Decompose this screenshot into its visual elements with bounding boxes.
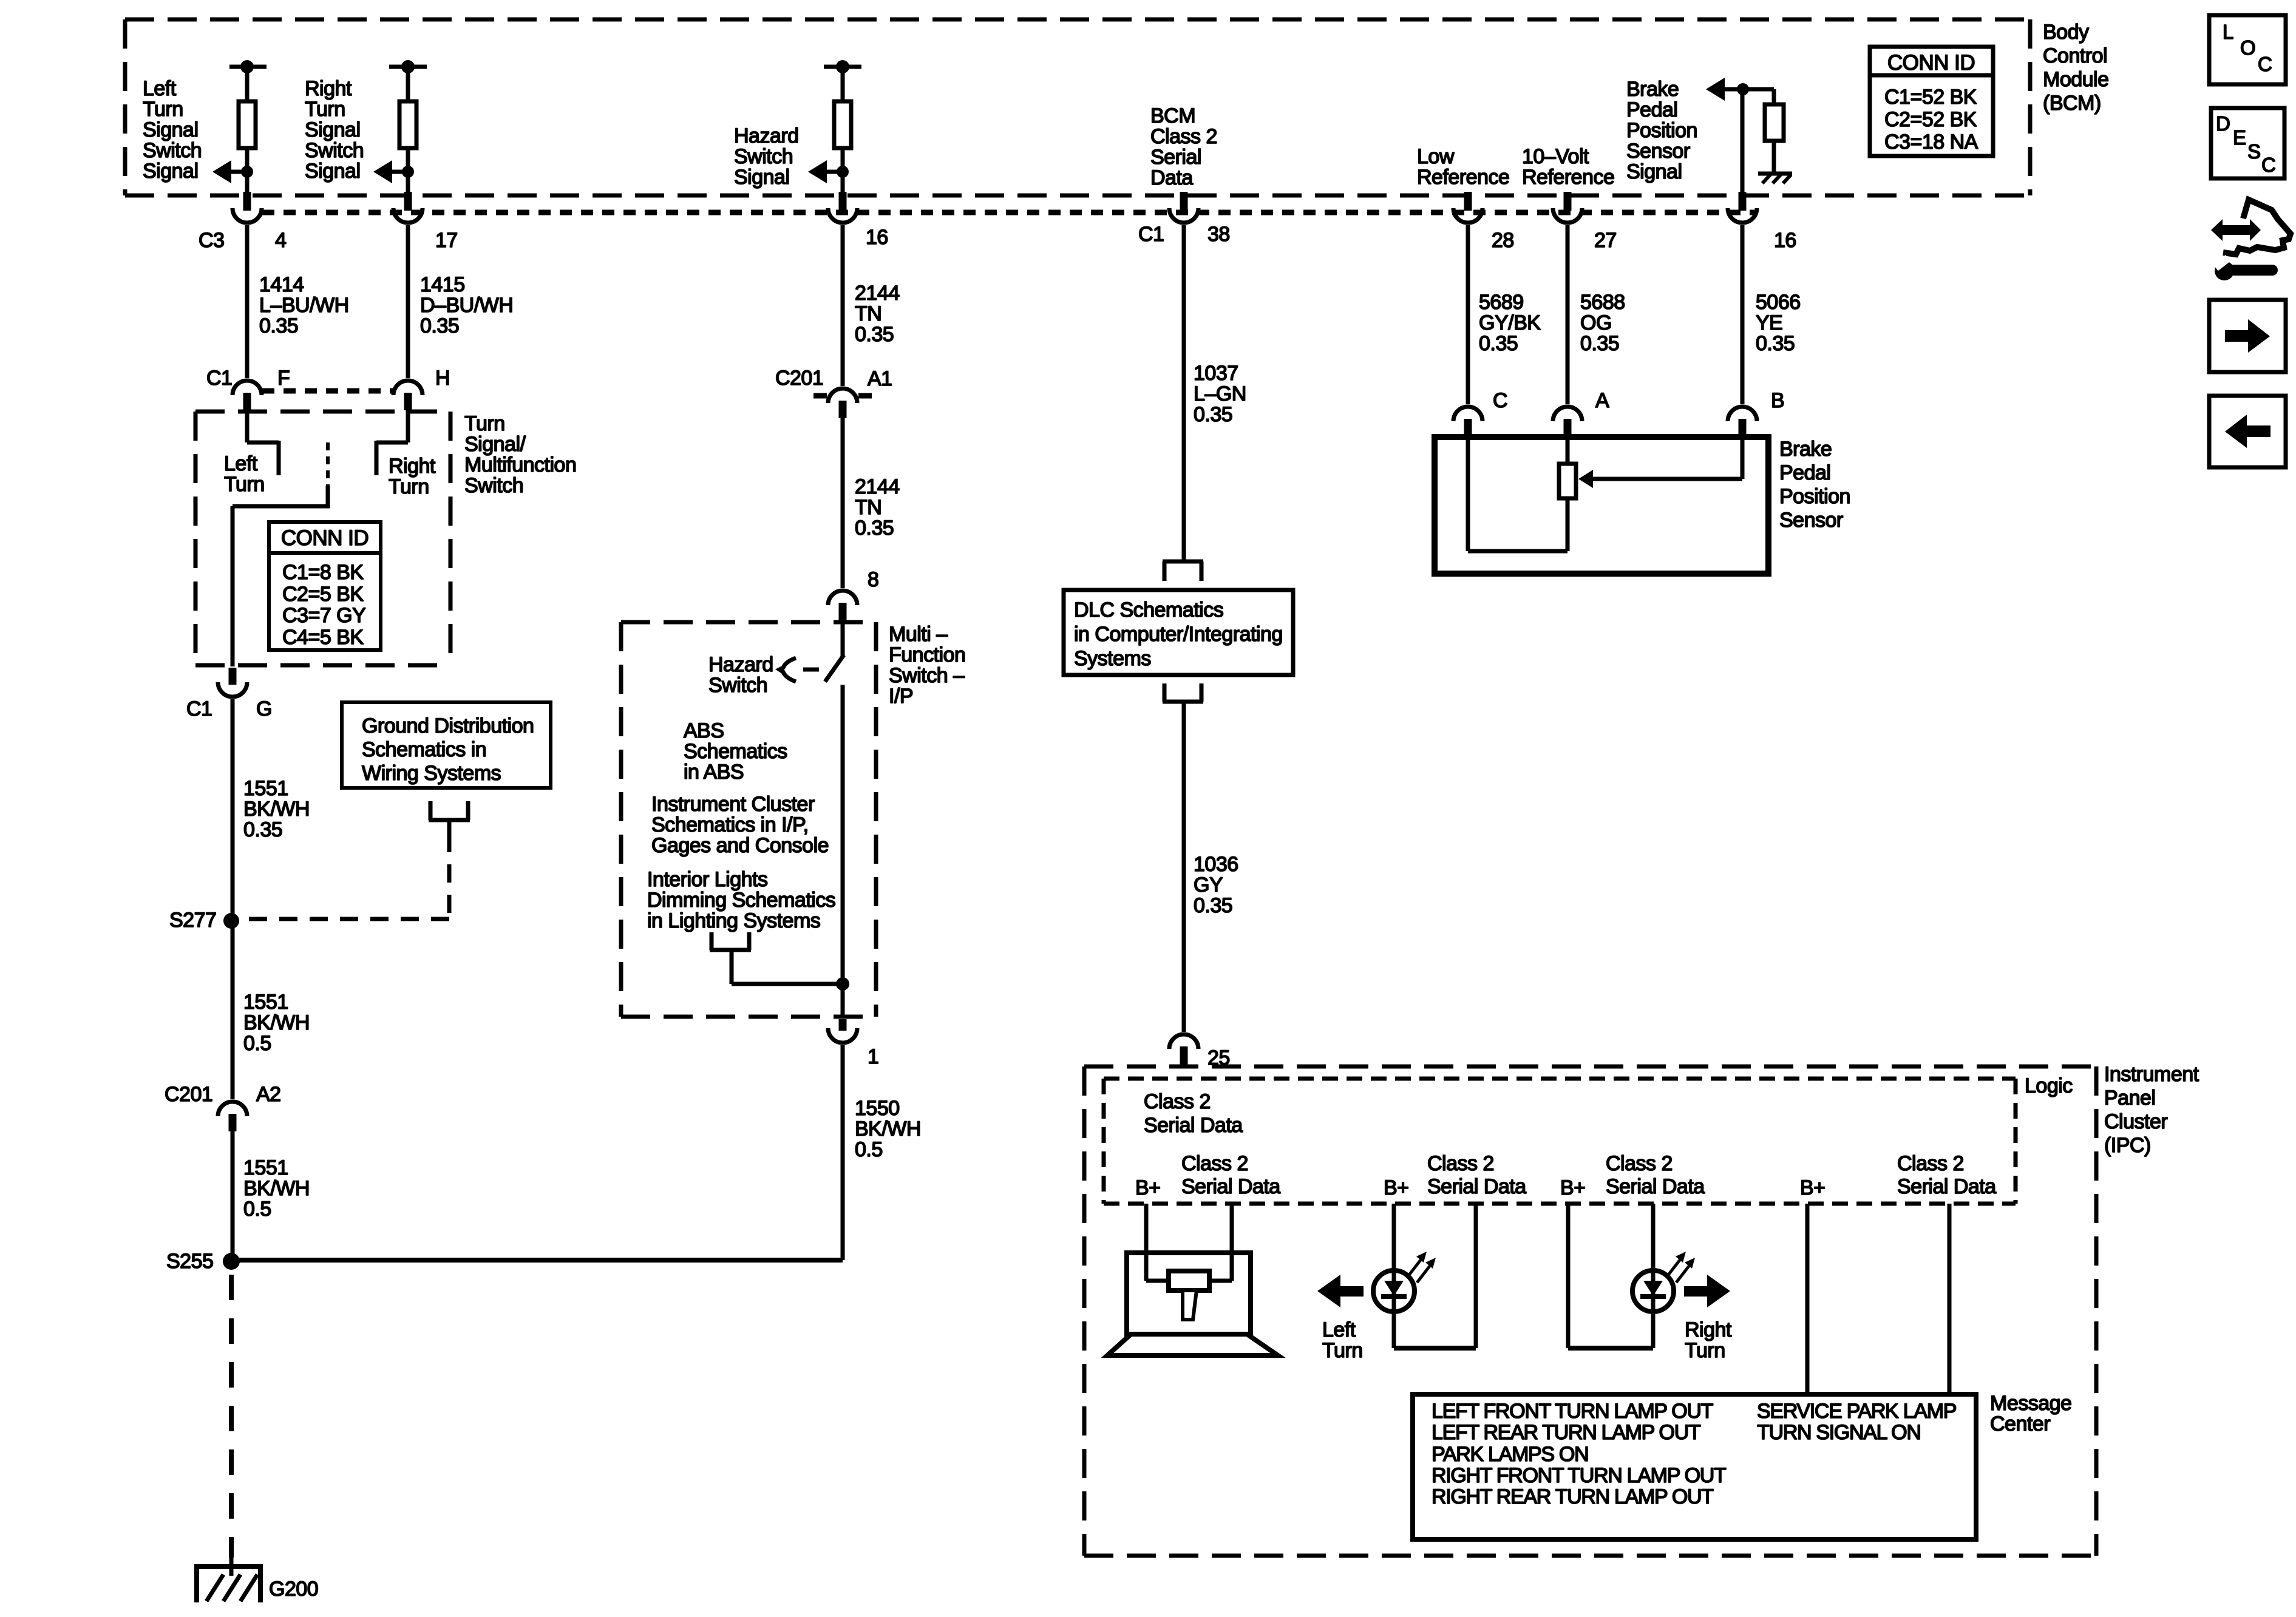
svg-text:S: S <box>2247 140 2261 163</box>
svg-text:in ABS: in ABS <box>684 761 744 784</box>
svg-text:1: 1 <box>868 1045 878 1068</box>
svg-text:Class 2: Class 2 <box>1181 1152 1248 1175</box>
svg-text:C2=5 BK: C2=5 BK <box>282 583 364 606</box>
connector: pin 28 (low reference) <box>1464 192 1472 211</box>
svg-text:0.35: 0.35 <box>1194 403 1232 426</box>
svg-text:B+: B+ <box>1384 1176 1409 1199</box>
svg-text:Schematics: Schematics <box>684 740 787 763</box>
svg-text:G200: G200 <box>269 1578 318 1601</box>
svg-text:Reference: Reference <box>1417 166 1509 189</box>
svg-text:C1: C1 <box>186 697 212 720</box>
svg-text:C: C <box>1493 389 1507 412</box>
node: junction on hazard return wire <box>836 977 849 991</box>
svg-text:0.35: 0.35 <box>420 314 459 337</box>
switch: hazard switch blade (open) <box>841 622 845 656</box>
svg-text:B: B <box>1771 389 1784 412</box>
wire: circuit 1551 upper <box>231 699 235 1099</box>
connector: sensor pin C <box>1453 407 1483 421</box>
node: splice S255 <box>223 1253 240 1270</box>
signal arrow + junction: Hazard Switch Signal <box>837 166 849 178</box>
svg-text:Brake: Brake <box>1779 438 1832 461</box>
svg-text:0.35: 0.35 <box>855 323 894 346</box>
logic box: IPC Logic (dashed) <box>1104 1077 2016 1081</box>
connector: multifunction switch I/P pin 1 <box>839 1019 847 1031</box>
svg-text:D–BU/WH: D–BU/WH <box>420 294 513 317</box>
module box: Body Control Module (BCM), dashed outline <box>125 18 2030 22</box>
svg-text:Center: Center <box>1990 1412 2050 1436</box>
connector line: switch connector C1 (dotted, F to H) <box>262 388 395 394</box>
svg-text:0.35: 0.35 <box>1580 332 1619 355</box>
svg-text:Class 2: Class 2 <box>1897 1152 1964 1175</box>
svg-text:LEFT REAR TURN LAMP OUT: LEFT REAR TURN LAMP OUT <box>1432 1421 1700 1444</box>
icon: vehicle with wrench (repair instructions) <box>2211 219 2261 241</box>
svg-text:Serial Data: Serial Data <box>1897 1175 1996 1198</box>
svg-text:Body: Body <box>2043 21 2089 44</box>
svg-text:(BCM): (BCM) <box>2043 92 2101 115</box>
connector: C1 pin G (switch ground output) <box>229 668 237 685</box>
svg-text:Reference: Reference <box>1522 166 1614 189</box>
svg-text:Right: Right <box>1685 1318 1732 1341</box>
switch: left turn contact <box>245 410 250 442</box>
svg-text:C1: C1 <box>1138 223 1164 246</box>
svg-text:C201: C201 <box>165 1083 212 1106</box>
arrow: right turn telltale (points right) <box>1707 1275 1730 1307</box>
svg-text:0.35: 0.35 <box>1194 894 1232 917</box>
svg-text:C1=8 BK: C1=8 BK <box>282 561 364 584</box>
svg-text:Multifunction: Multifunction <box>464 453 576 476</box>
connector: C1 pin 38 (BCM class 2 serial data) <box>1180 192 1188 211</box>
switch: right turn contact (open) <box>406 410 410 442</box>
svg-text:O: O <box>2240 36 2255 59</box>
svg-text:BK/WH: BK/WH <box>855 1117 921 1141</box>
signal arrow + junction: Right Turn Signal Switch Signal <box>402 166 414 178</box>
wire: circuit 2144 upper (hazard) <box>841 225 845 386</box>
icon: left arrow box <box>2209 396 2286 467</box>
svg-text:Multi –: Multi – <box>889 623 948 646</box>
connector: C201 pin A2 <box>218 1102 247 1116</box>
svg-text:17: 17 <box>435 229 458 252</box>
svg-text:BK/WH: BK/WH <box>243 1177 310 1200</box>
svg-text:L: L <box>2223 21 2233 43</box>
connector: sensor pin B <box>1728 407 1757 421</box>
wire: left turn LED return loop <box>1392 1312 1396 1348</box>
arrow: left turn telltale (points left) <box>1317 1275 1340 1307</box>
connector: sensor pin A <box>1553 407 1582 421</box>
svg-text:Right: Right <box>305 77 352 100</box>
svg-text:DLC Schematics: DLC Schematics <box>1074 598 1223 622</box>
svg-text:0.35: 0.35 <box>243 818 282 841</box>
svg-text:C3: C3 <box>199 229 224 252</box>
connector: C1 pin H (turn signal switch) <box>393 381 423 395</box>
reference box: Ground Distribution Schematics in Wiring Systems <box>342 702 551 788</box>
svg-text:LEFT FRONT TURN LAMP OUT: LEFT FRONT TURN LAMP OUT <box>1432 1400 1713 1423</box>
svg-text:Signal: Signal <box>143 160 199 183</box>
potentiometer: brake pedal position sensor element <box>1566 438 1570 464</box>
svg-text:BCM: BCM <box>1150 104 1195 127</box>
resistor: brake pedal signal pull-up (BCM internal) <box>1772 89 1776 104</box>
switch actuator: hazard knob symbol <box>779 658 796 682</box>
resistor: Left Turn Signal Switch pull-up (BCM internal), wire x=407 <box>229 65 267 69</box>
wire: circuit 5066 (brake pedal sensor signal) <box>1741 225 1745 404</box>
svg-text:C: C <box>2261 154 2275 176</box>
wire: brake pedal signal down to BCM pin 16 <box>1741 89 1745 193</box>
svg-text:1550: 1550 <box>855 1097 900 1120</box>
svg-text:Control: Control <box>2043 44 2107 67</box>
LED: right turn indicator <box>1632 1270 1674 1312</box>
svg-text:Pedal: Pedal <box>1626 98 1677 121</box>
svg-text:38: 38 <box>1207 223 1230 246</box>
wiper arrow: sensor signal (pin B) <box>1741 438 1745 479</box>
svg-text:0.5: 0.5 <box>243 1198 271 1221</box>
svg-text:Switch: Switch <box>708 674 767 697</box>
svg-text:Class 2: Class 2 <box>1150 125 1217 148</box>
svg-text:Switch –: Switch – <box>889 664 965 687</box>
svg-text:C1: C1 <box>206 367 232 390</box>
svg-text:Position: Position <box>1626 119 1697 142</box>
svg-text:Serial Data: Serial Data <box>1181 1175 1280 1198</box>
svg-text:Turn: Turn <box>389 475 429 498</box>
svg-text:C201: C201 <box>775 367 823 390</box>
svg-text:Position: Position <box>1779 485 1850 508</box>
svg-text:Dimming Schematics: Dimming Schematics <box>647 889 835 912</box>
svg-text:Schematics in: Schematics in <box>362 738 486 761</box>
svg-text:A1: A1 <box>868 367 892 390</box>
signal arrow + junction: Left Turn Signal Switch Signal <box>241 166 253 178</box>
svg-text:GY/BK: GY/BK <box>1479 311 1541 334</box>
svg-text:Right: Right <box>389 455 436 478</box>
svg-text:Interior Lights: Interior Lights <box>647 868 768 891</box>
display box: Message Center texts <box>1413 1394 1976 1539</box>
svg-text:Low: Low <box>1417 145 1455 168</box>
wire: circuit 1036 <box>1182 707 1186 1032</box>
connector line: BCM harness connectors (dotted) <box>262 210 1754 215</box>
svg-text:0.35: 0.35 <box>1756 332 1795 355</box>
svg-text:Module: Module <box>2043 68 2109 91</box>
svg-text:Left: Left <box>1322 1318 1356 1341</box>
wire: message center feed 1 <box>1805 1204 1810 1395</box>
svg-text:Instrument Cluster: Instrument Cluster <box>651 793 815 816</box>
svg-text:16: 16 <box>866 226 888 249</box>
svg-text:TN: TN <box>855 302 881 325</box>
table: BCM CONN ID (C1=52 BK, C2=52 BK, C3=18 NA) <box>1870 47 1993 156</box>
node: splice S277 <box>223 913 239 929</box>
svg-text:Serial: Serial <box>1150 146 1201 169</box>
svg-text:Serial Data: Serial Data <box>1144 1114 1243 1137</box>
wire: message center feed 2 <box>1948 1204 1952 1395</box>
svg-text:1551: 1551 <box>243 1156 288 1179</box>
connector: C3 pin 4 (left turn signal wire) <box>243 192 251 211</box>
svg-text:Brake: Brake <box>1626 78 1679 101</box>
svg-text:Schematics in I/P,: Schematics in I/P, <box>651 813 809 836</box>
wire: right turn LED left leg <box>1566 1204 1571 1348</box>
ground: BCM internal ground (chassis) <box>1758 172 1792 176</box>
svg-text:H: H <box>435 367 450 390</box>
component box: Multi-Function Switch - I/P (dashed) <box>621 620 876 625</box>
svg-text:ABS: ABS <box>684 719 724 742</box>
svg-text:S255: S255 <box>166 1250 213 1273</box>
svg-text:YE: YE <box>1756 311 1782 334</box>
svg-text:OG: OG <box>1580 311 1612 334</box>
svg-text:1036: 1036 <box>1194 853 1238 876</box>
svg-text:0.35: 0.35 <box>1479 332 1518 355</box>
svg-text:1037: 1037 <box>1194 362 1238 385</box>
lamp: message center telltale display icon <box>1146 1279 1232 1283</box>
wire: right turn LED return loop <box>1568 1346 1653 1351</box>
svg-text:Pedal: Pedal <box>1779 461 1830 484</box>
svg-text:10–Volt: 10–Volt <box>1522 145 1589 168</box>
svg-text:Serial Data: Serial Data <box>1427 1175 1526 1198</box>
svg-text:Cluster: Cluster <box>2104 1110 2167 1133</box>
svg-text:Turn: Turn <box>143 98 183 121</box>
wire: reference drop joining hazard return <box>730 965 734 984</box>
ground: G200 <box>229 1558 234 1576</box>
svg-text:Turn: Turn <box>1685 1339 1725 1362</box>
svg-text:4: 4 <box>275 229 286 252</box>
icon: right arrow box <box>2209 300 2286 372</box>
svg-text:1414: 1414 <box>259 273 304 296</box>
svg-text:C4=5 BK: C4=5 BK <box>282 626 364 649</box>
svg-text:C: C <box>2258 53 2272 75</box>
connector: C201 pin A1 <box>828 388 857 403</box>
svg-text:Signal: Signal <box>1626 160 1682 183</box>
svg-text:Turn: Turn <box>305 98 345 121</box>
connector line: C201 A1 (dotted stubs) <box>813 393 827 399</box>
svg-text:L–GN: L–GN <box>1194 382 1246 405</box>
svg-text:Serial Data: Serial Data <box>1606 1175 1705 1198</box>
svg-text:BK/WH: BK/WH <box>243 1011 310 1034</box>
svg-text:Switch: Switch <box>464 474 523 497</box>
svg-text:GY: GY <box>1194 873 1223 897</box>
svg-text:RIGHT FRONT TURN LAMP OUT: RIGHT FRONT TURN LAMP OUT <box>1432 1464 1726 1487</box>
connector: multifunction switch I/P pin 8 <box>828 591 857 605</box>
svg-text:B+: B+ <box>1560 1176 1586 1199</box>
svg-text:Wiring Systems: Wiring Systems <box>362 762 501 785</box>
svg-text:(IPC): (IPC) <box>2104 1134 2151 1157</box>
table: switch CONN ID (C1=8 BK, C2=5 BK, C3=7 GY, C4=5 BK) <box>269 522 381 650</box>
svg-text:in Computer/Integrating: in Computer/Integrating <box>1074 623 1283 646</box>
wire: telltale lamp feed (left leg) <box>1144 1204 1149 1281</box>
svg-text:B+: B+ <box>1800 1176 1826 1199</box>
svg-text:Signal: Signal <box>734 166 790 189</box>
svg-text:Hazard: Hazard <box>708 653 773 676</box>
svg-text:G: G <box>256 697 272 720</box>
svg-text:1551: 1551 <box>243 777 288 800</box>
svg-text:A: A <box>1595 389 1609 412</box>
svg-text:0.5: 0.5 <box>855 1138 883 1161</box>
svg-text:C3=7 GY: C3=7 GY <box>282 604 365 627</box>
wire: circuit 1551 lower <box>231 1131 235 1260</box>
module box: Instrument Panel Cluster (IPC), dashed outline <box>1084 1065 2096 1069</box>
wire: dashed drop from S255 to ground G200 <box>229 1275 234 1558</box>
svg-text:CONN ID: CONN ID <box>1887 51 1975 75</box>
connector: IPC pin 25 <box>1169 1034 1198 1049</box>
wire: circuit 5689 (low reference) <box>1466 225 1470 404</box>
svg-text:TURN SIGNAL ON: TURN SIGNAL ON <box>1757 1421 1921 1444</box>
svg-text:Switch: Switch <box>305 139 364 162</box>
svg-text:Turn: Turn <box>1322 1339 1363 1362</box>
svg-text:27: 27 <box>1594 229 1617 252</box>
svg-text:Sensor: Sensor <box>1779 509 1843 532</box>
svg-text:0.5: 0.5 <box>243 1032 271 1055</box>
svg-text:Signal: Signal <box>143 118 199 141</box>
LED light rays: left turn <box>1408 1258 1422 1276</box>
svg-text:Class 2: Class 2 <box>1427 1152 1494 1175</box>
svg-text:Logic: Logic <box>2025 1074 2073 1097</box>
svg-text:A2: A2 <box>256 1083 281 1106</box>
svg-text:S277: S277 <box>169 909 216 932</box>
component box: Turn Signal/Multifunction Switch (dashed) <box>195 410 450 414</box>
svg-text:I/P: I/P <box>889 685 913 708</box>
wire: dashed link from ground distribution reference to S277 <box>447 834 452 919</box>
svg-text:TN: TN <box>855 496 881 519</box>
off-page bracket below DLC reference box <box>1163 683 1167 702</box>
resistor: Right Turn Signal Switch pull-up (BCM internal), wire x=672 <box>389 65 427 69</box>
component box: Brake Pedal Position Sensor <box>1435 437 1768 574</box>
off-page bracket above DLC reference box <box>1163 560 1203 564</box>
svg-text:Left: Left <box>143 77 177 100</box>
connector: pin 16 (brake pedal position sensor signal) <box>1739 192 1747 211</box>
svg-text:8: 8 <box>868 568 878 591</box>
wire: circuit 2144 lower (hazard) <box>841 418 845 588</box>
svg-text:RIGHT REAR TURN LAMP OUT: RIGHT REAR TURN LAMP OUT <box>1432 1485 1713 1508</box>
off-page bracket below interior lights reference <box>710 932 714 950</box>
svg-text:Gages and Console: Gages and Console <box>651 834 829 857</box>
wire: left turn LED anode <box>1392 1204 1396 1272</box>
svg-text:E: E <box>2233 126 2246 149</box>
switch linkage: left turn (dashed) and blade <box>326 442 330 486</box>
svg-text:5066: 5066 <box>1756 291 1801 314</box>
svg-text:L–BU/WH: L–BU/WH <box>259 294 349 317</box>
svg-text:Signal: Signal <box>305 160 361 183</box>
svg-text:Switch: Switch <box>734 145 793 168</box>
svg-text:in Lighting Systems: in Lighting Systems <box>647 909 820 932</box>
svg-text:0.35: 0.35 <box>259 314 298 337</box>
svg-text:Sensor: Sensor <box>1626 140 1690 163</box>
svg-text:5688: 5688 <box>1580 291 1625 314</box>
svg-text:Turn: Turn <box>224 473 265 496</box>
svg-text:CONN ID: CONN ID <box>281 526 369 550</box>
svg-text:PARK LAMPS ON: PARK LAMPS ON <box>1432 1443 1588 1466</box>
svg-text:5689: 5689 <box>1479 291 1524 314</box>
connector: pin 27 (10-volt reference) <box>1564 192 1572 211</box>
wire: circuit 1414 (left turn) <box>245 225 250 378</box>
svg-text:Data: Data <box>1150 166 1193 189</box>
svg-text:2144: 2144 <box>855 475 900 498</box>
signal arrow: Brake Pedal Position Sensor Signal <box>1706 78 1725 101</box>
wire: telltale lamp feed (right leg) <box>1230 1204 1234 1281</box>
wire: circuit 1550 (hazard return) <box>841 1045 845 1260</box>
svg-text:Instrument: Instrument <box>2104 1063 2199 1086</box>
wire: circuit 1037 (class 2 serial data) <box>1182 225 1186 561</box>
svg-text:Turn: Turn <box>464 412 505 435</box>
reference box: DLC Schematics in Computer/Integrating Systems <box>1064 590 1293 675</box>
wire: sensor low reference return (pin C to element) <box>1466 438 1470 551</box>
LED light rays: right turn <box>1667 1258 1682 1276</box>
svg-text:Switch: Switch <box>143 139 202 162</box>
wire: S255 to hazard switch return (horizontal) <box>231 1258 843 1263</box>
off-page bracket below ground distribution box <box>429 801 433 820</box>
svg-text:16: 16 <box>1774 229 1796 252</box>
svg-text:Panel: Panel <box>2104 1086 2155 1110</box>
svg-text:Ground Distribution: Ground Distribution <box>362 714 534 737</box>
svg-text:C1=52 BK: C1=52 BK <box>1884 86 1977 109</box>
svg-text:Signal/: Signal/ <box>464 433 526 456</box>
svg-text:C3=18 NA: C3=18 NA <box>1884 131 1978 154</box>
svg-text:28: 28 <box>1492 229 1514 252</box>
svg-text:0.35: 0.35 <box>855 517 894 540</box>
svg-text:F: F <box>277 367 290 390</box>
connector: C3 pin 17 (right turn signal wire) <box>404 192 412 211</box>
svg-text:Class 2: Class 2 <box>1606 1152 1673 1175</box>
svg-text:1551: 1551 <box>243 991 288 1014</box>
svg-text:1415: 1415 <box>420 273 465 296</box>
connector: pin 16 (hazard switch signal) <box>839 192 847 211</box>
icon: LOC box <box>2209 15 2286 84</box>
svg-text:Message: Message <box>1990 1392 2071 1415</box>
svg-text:D: D <box>2216 112 2230 135</box>
resistor: Hazard Switch pull-up (BCM internal), wire x=1388 <box>824 65 861 69</box>
svg-text:BK/WH: BK/WH <box>243 798 310 821</box>
svg-text:Class 2: Class 2 <box>1144 1090 1211 1113</box>
icon: DESC box <box>2211 108 2284 178</box>
svg-text:Left: Left <box>224 452 258 475</box>
wire: circuit 5688 (10-volt reference) <box>1566 225 1570 404</box>
wire: circuit 1415 (right turn) <box>406 225 410 378</box>
svg-text:B+: B+ <box>1135 1176 1161 1199</box>
connector: C1 pin F (turn signal switch) <box>233 381 262 395</box>
svg-text:Systems: Systems <box>1074 647 1151 670</box>
svg-text:Function: Function <box>889 643 965 666</box>
svg-text:Hazard: Hazard <box>734 124 799 147</box>
svg-text:SERVICE PARK LAMP: SERVICE PARK LAMP <box>1757 1400 1956 1423</box>
LED: left turn indicator <box>1373 1270 1415 1312</box>
svg-text:Signal: Signal <box>305 118 361 141</box>
svg-text:C2=52 BK: C2=52 BK <box>1884 108 1977 131</box>
node: junction on brake pedal signal line <box>1737 83 1749 95</box>
svg-text:2144: 2144 <box>855 282 900 305</box>
